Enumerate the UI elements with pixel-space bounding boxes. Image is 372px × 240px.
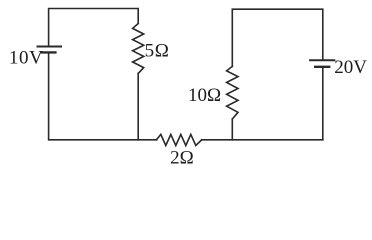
- svg-text:5Ω: 5Ω: [145, 41, 170, 62]
- wire: right-loop top (node between R 10ohm top and V2): [232, 9, 322, 66]
- svg-text:10V: 10V: [9, 48, 44, 69]
- svg-text:20V: 20V: [334, 57, 367, 78]
- resistor R3 2ohm (horizontal zigzag): [157, 134, 202, 145]
- battery V1 10V (long plate): [38, 46, 62, 48]
- wire: 2ohm right to bottom-right corner: [202, 139, 323, 141]
- wire: R2 bottom to bottom node junction: [231, 119, 233, 140]
- wire: V2 negative down to bottom wire: [322, 67, 324, 140]
- resistor R1 5ohm (vertical zigzag): [133, 24, 144, 74]
- wire: R1 bottom to bottom node: [137, 74, 139, 140]
- svg-text:2Ω: 2Ω: [170, 147, 194, 168]
- wire: left-loop top (node between V1 + and R 5ohm top): [49, 9, 139, 47]
- resistor R2 10ohm (vertical zigzag): [227, 66, 238, 119]
- wire: V1 negative to bottom-left corner and bottom wire to 2ohm: [49, 52, 157, 139]
- battery V2 20V (short plate): [315, 66, 329, 68]
- battery V2 20V (long plate): [310, 59, 334, 61]
- battery V1 10V (short plate): [42, 51, 55, 53]
- svg-text:10Ω: 10Ω: [188, 85, 221, 106]
